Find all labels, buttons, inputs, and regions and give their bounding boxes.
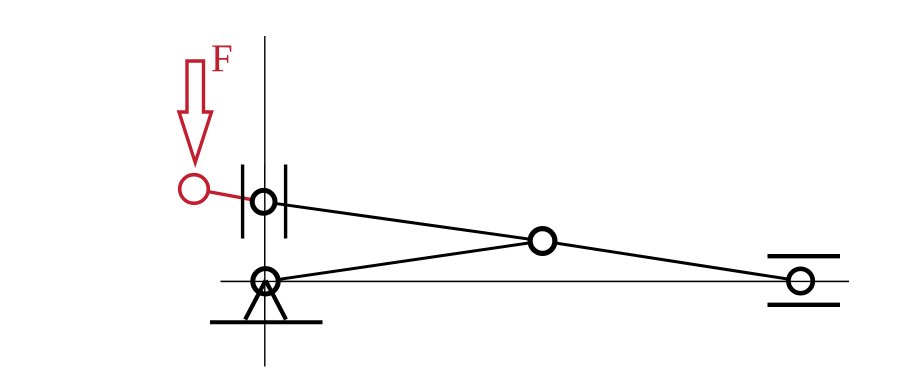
slider guide bottom rail at joint D [768, 303, 841, 307]
joint A circle (slider pin) [252, 190, 275, 213]
node: red force application point (small red circle) [180, 175, 209, 204]
pivot B circle (fixed pin) [253, 269, 278, 294]
svg-text:F: F [211, 37, 233, 80]
ground: pivot support triangle right leg [266, 281, 286, 320]
force arrow F (hollow red down arrow) [179, 61, 212, 163]
wire: link B-C [266, 241, 543, 281]
wire: link C-D [543, 241, 801, 281]
wire: red link from force point to joint A [194, 189, 264, 202]
slider guide top rail at joint D [768, 254, 841, 258]
wire: horizontal axis line through pivot B and slider D [221, 280, 850, 282]
joint D circle (right slider pin) [788, 269, 812, 293]
slider guide right bar at joint A [284, 165, 287, 239]
ground: pivot support triangle left leg [245, 281, 265, 320]
wire: vertical centerline redrawn inside joint circles [264, 165, 266, 320]
wire: horizontal axis redrawn inside pivot and slider circles [221, 280, 850, 282]
ground: pivot support base line [210, 320, 323, 324]
wire: vertical centerline through joints A and B [264, 36, 266, 367]
wire: link A-C [264, 202, 543, 241]
joint C circle (middle pin) [530, 229, 555, 254]
slider guide left bar at joint A [241, 165, 244, 239]
